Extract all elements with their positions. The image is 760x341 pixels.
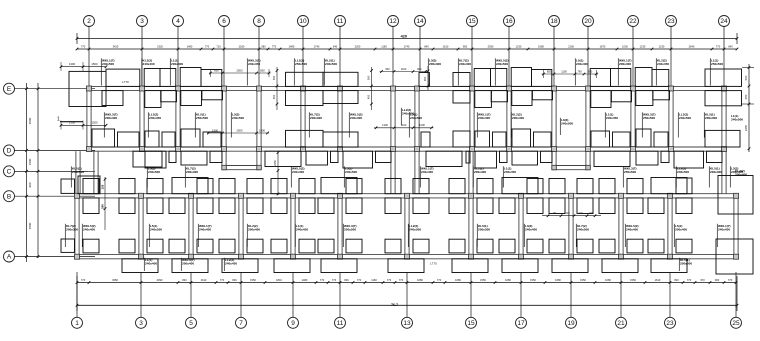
axis 12 extension line bbox=[392, 27, 394, 87]
axis 25 extension line (bottom) bbox=[735, 272, 737, 317]
axis 17 extension line (bottom) bbox=[520, 272, 522, 317]
slab panel above D bbox=[453, 131, 470, 147]
svg-text:1680: 1680 bbox=[555, 278, 561, 282]
slab panel below A bbox=[321, 259, 357, 273]
slab panel above D bbox=[493, 132, 507, 147]
corner panel above B bbox=[477, 179, 493, 194]
grid bubble axis C (left) bbox=[4, 166, 15, 177]
slab panel above E bbox=[635, 68, 652, 87]
column line axis 7 B-A bbox=[238, 198, 240, 255]
corner panel above A bbox=[271, 239, 287, 253]
svg-text:22: 22 bbox=[629, 18, 637, 25]
axis 23 extension line bbox=[670, 27, 672, 87]
slab panel below D (right) bbox=[169, 151, 176, 162]
svg-text:2450: 2450 bbox=[744, 124, 748, 131]
svg-text:240x500: 240x500 bbox=[409, 228, 421, 232]
svg-text:23: 23 bbox=[667, 18, 675, 25]
svg-text:500: 500 bbox=[272, 75, 276, 80]
column axis 8/E bbox=[257, 86, 262, 91]
svg-text:1550: 1550 bbox=[480, 278, 486, 282]
svg-text:900: 900 bbox=[715, 278, 720, 282]
svg-text:200x300: 200x300 bbox=[186, 170, 198, 174]
column axis 19/A bbox=[569, 254, 574, 259]
svg-text:2640: 2640 bbox=[689, 44, 695, 48]
slab panel below D (right) bbox=[331, 151, 339, 162]
small vertical dim right of axis 8 (E band) bbox=[276, 67, 278, 110]
column axis 11/E bbox=[338, 86, 343, 91]
slab panel below E bbox=[491, 91, 507, 102]
svg-text:15: 15 bbox=[467, 320, 475, 327]
column line axis 17 B-A bbox=[518, 198, 520, 255]
corner panel above A bbox=[169, 239, 185, 253]
svg-text:240x400: 240x400 bbox=[459, 62, 471, 66]
slab panel above E bbox=[611, 69, 631, 87]
corner panel above B bbox=[147, 179, 163, 194]
corner panel above A bbox=[627, 239, 643, 253]
svg-text:19: 19 bbox=[567, 320, 575, 327]
slab panel above E (span) bbox=[323, 72, 358, 86]
column axis 23/E bbox=[669, 86, 674, 91]
svg-text:1680: 1680 bbox=[455, 278, 461, 282]
slab panel below D (right) bbox=[376, 151, 392, 162]
axis 10 extension line bbox=[302, 27, 304, 87]
slab panel below D bbox=[512, 151, 538, 165]
column axis 21/A bbox=[619, 254, 624, 259]
svg-text:240x400: 240x400 bbox=[143, 62, 155, 66]
corner panel above B bbox=[119, 179, 135, 194]
svg-text:900: 900 bbox=[417, 67, 422, 71]
svg-text:1550: 1550 bbox=[530, 278, 536, 282]
axis 4 extension line bbox=[177, 27, 179, 87]
svg-text:L770: L770 bbox=[430, 262, 437, 266]
corner panel above A bbox=[599, 239, 615, 253]
grid bubble axis 6 (top) bbox=[219, 16, 230, 27]
corner panel above A bbox=[247, 239, 263, 253]
beam row D bbox=[88, 146, 727, 148]
corner panel above A bbox=[147, 239, 163, 253]
axis 23 extension line (bottom) bbox=[669, 272, 671, 317]
svg-text:770: 770 bbox=[220, 278, 225, 282]
svg-text:240x500: 240x500 bbox=[577, 228, 589, 232]
svg-text:250x500: 250x500 bbox=[643, 116, 655, 120]
column axis 4/E bbox=[176, 86, 181, 91]
corner panel above A bbox=[83, 239, 99, 253]
svg-text:770: 770 bbox=[716, 44, 721, 48]
column axis 16/E bbox=[507, 86, 512, 91]
svg-text:110: 110 bbox=[565, 211, 570, 215]
grid bubble axis 1 (bottom) bbox=[72, 317, 83, 328]
column axis 22/D bbox=[631, 147, 636, 152]
svg-text:2190: 2190 bbox=[568, 44, 574, 48]
slab panel above D bbox=[181, 129, 200, 147]
svg-text:250x500: 250x500 bbox=[295, 62, 307, 66]
grid bubble axis 15 (bottom) bbox=[466, 317, 477, 328]
svg-text:8: 8 bbox=[257, 18, 261, 25]
slab panel above B (crossing) bbox=[502, 178, 538, 194]
corner panel above A bbox=[449, 239, 465, 253]
column line axis 15 E-D bbox=[469, 91, 471, 152]
column axis 7/B bbox=[239, 193, 244, 198]
slab panel below D bbox=[594, 151, 630, 166]
column axis 23/A bbox=[668, 254, 673, 259]
column axis 3/E bbox=[140, 86, 145, 91]
slab panel below D (right) bbox=[466, 151, 470, 163]
column axis 24/D bbox=[722, 147, 727, 152]
corner panel above A bbox=[318, 239, 334, 253]
column axis 9/B bbox=[291, 193, 296, 198]
elevator bay dims bbox=[380, 71, 428, 73]
corner panel below B bbox=[219, 198, 235, 214]
svg-text:850: 850 bbox=[260, 68, 265, 72]
svg-text:24: 24 bbox=[720, 18, 728, 25]
svg-text:14: 14 bbox=[416, 18, 424, 25]
slab panel above E bbox=[590, 69, 610, 87]
svg-text:2500: 2500 bbox=[237, 128, 243, 132]
svg-text:840: 840 bbox=[674, 278, 679, 282]
corner panel above B bbox=[299, 179, 315, 194]
slab panel below A bbox=[502, 259, 538, 273]
svg-text:1810: 1810 bbox=[276, 278, 282, 282]
svg-text:2450: 2450 bbox=[273, 160, 277, 166]
small vertical dim left of axis 12 (E band) bbox=[371, 67, 373, 110]
axis 15 extension line bbox=[471, 27, 473, 87]
corner panel above B bbox=[271, 179, 287, 194]
svg-text:10: 10 bbox=[299, 18, 307, 25]
svg-text:C: C bbox=[7, 169, 12, 176]
column axis 22/E bbox=[631, 86, 636, 91]
corner panel above B bbox=[385, 179, 401, 194]
svg-text:240x500: 240x500 bbox=[677, 170, 689, 174]
svg-text:770: 770 bbox=[332, 278, 337, 282]
svg-text:240x400: 240x400 bbox=[292, 170, 304, 174]
svg-text:17: 17 bbox=[517, 320, 525, 327]
axis 13 extension line (bottom) bbox=[406, 272, 408, 317]
column axis 25/B bbox=[734, 193, 739, 198]
axis 16 extension line bbox=[508, 27, 510, 87]
slab panel below D bbox=[181, 151, 207, 165]
slab panel above E bbox=[453, 73, 470, 87]
svg-text:1200: 1200 bbox=[419, 123, 425, 127]
left outer slab above B bbox=[61, 179, 75, 193]
svg-text:240x450: 240x450 bbox=[225, 262, 237, 266]
column axis 17/A bbox=[519, 254, 524, 259]
svg-text:240x450: 240x450 bbox=[504, 170, 516, 174]
slab panel above B (crossing) bbox=[321, 178, 357, 194]
grid bubble axis 13 (bottom) bbox=[402, 317, 413, 328]
slab panel above D bbox=[636, 129, 651, 147]
svg-text:200x300: 200x300 bbox=[705, 116, 717, 120]
bottom chain dimension line bbox=[77, 282, 737, 284]
slab panel below A bbox=[122, 259, 158, 273]
slab panel below D bbox=[306, 151, 328, 165]
stair bay 3 dims bbox=[542, 73, 599, 75]
svg-text:1230: 1230 bbox=[516, 44, 522, 48]
svg-text:900: 900 bbox=[28, 182, 32, 187]
axis 3 extension line (bottom) bbox=[140, 272, 142, 317]
corner panel above A bbox=[648, 239, 664, 253]
axis 7 extension line (bottom) bbox=[240, 272, 242, 317]
mid-left dim 1300 1300 bbox=[61, 124, 106, 126]
corner panel below B bbox=[577, 198, 593, 214]
column line axis 15 D-B bbox=[468, 151, 470, 194]
svg-text:1: 1 bbox=[57, 117, 60, 123]
slab panel below A bbox=[274, 259, 310, 273]
svg-text:2500: 2500 bbox=[28, 117, 32, 124]
slab panel below E bbox=[591, 91, 611, 108]
grid bubble axis 12 (top) bbox=[388, 16, 399, 27]
corner panel below B bbox=[385, 198, 401, 214]
column axis 12/E bbox=[391, 86, 396, 91]
corner panel below B bbox=[477, 198, 493, 214]
svg-text:16: 16 bbox=[505, 18, 513, 25]
column axis 15/E bbox=[470, 86, 475, 91]
slab panel below A bbox=[172, 259, 208, 273]
column line axis 19 B-A bbox=[568, 198, 570, 255]
column line axis 6 E-D bbox=[221, 91, 223, 152]
column line axis 10 E-D bbox=[300, 91, 302, 152]
svg-text:240x400: 240x400 bbox=[199, 228, 211, 232]
svg-text:1100: 1100 bbox=[401, 67, 407, 71]
axis 11 extension line bbox=[339, 27, 341, 87]
axis 11 extension line (bottom) bbox=[339, 272, 341, 317]
svg-text:1740: 1740 bbox=[404, 44, 410, 48]
slab panel below E bbox=[512, 91, 532, 106]
svg-text:250x500: 250x500 bbox=[680, 262, 692, 266]
svg-text:450: 450 bbox=[272, 94, 276, 99]
slab panel below D bbox=[636, 151, 658, 165]
svg-text:1480: 1480 bbox=[289, 44, 295, 48]
axis 21 extension line (bottom) bbox=[620, 272, 622, 317]
column line axis 15 B-A bbox=[468, 198, 470, 255]
axis C line bbox=[15, 170, 89, 172]
svg-text:250x500: 250x500 bbox=[344, 228, 356, 232]
svg-text:2260: 2260 bbox=[355, 44, 361, 48]
column line axis 11 E-D bbox=[337, 91, 339, 152]
column line axis 13 B-A bbox=[404, 198, 406, 255]
slab panel below E bbox=[145, 91, 161, 108]
svg-text:450: 450 bbox=[744, 94, 748, 99]
slab panel below E bbox=[532, 91, 552, 100]
svg-text:200x400: 200x400 bbox=[474, 170, 486, 174]
column line axis 3 B-A bbox=[138, 198, 140, 255]
svg-text:250x500: 250x500 bbox=[624, 170, 636, 174]
corner panel below B bbox=[413, 198, 429, 214]
column line axis 18 E-D bbox=[551, 91, 553, 152]
svg-text:1550: 1550 bbox=[580, 278, 586, 282]
corner panel below B bbox=[527, 198, 543, 214]
slab panel below E bbox=[475, 91, 492, 108]
column line axis 8 E-D bbox=[256, 91, 258, 152]
svg-text:900: 900 bbox=[423, 76, 427, 81]
slab panel above D right end bbox=[705, 130, 740, 147]
slab panel above B (crossing) bbox=[172, 178, 208, 194]
svg-text:840: 840 bbox=[182, 278, 187, 282]
axis 3 extension line bbox=[141, 27, 143, 87]
slab panel above E bbox=[474, 69, 490, 87]
grid bubble axis 21 (bottom) bbox=[616, 317, 627, 328]
corner panel below B bbox=[83, 198, 99, 214]
corner panel below B bbox=[247, 198, 263, 214]
svg-text:1480: 1480 bbox=[302, 278, 308, 282]
svg-text:250x500: 250x500 bbox=[711, 62, 723, 66]
svg-text:12: 12 bbox=[389, 18, 397, 25]
top-left dim 1300 1500 bbox=[61, 66, 106, 68]
corner panel below B bbox=[549, 198, 565, 214]
corner panel above B bbox=[527, 179, 543, 194]
slab panel above D bbox=[512, 129, 531, 147]
slab panel above D bbox=[145, 131, 159, 147]
corner panel above A bbox=[346, 239, 362, 253]
slab panel below D bbox=[475, 151, 497, 168]
slab panel below E (span) bbox=[286, 91, 324, 106]
column axis 17/B bbox=[519, 193, 524, 198]
grid bubble axis 3 (bottom) bbox=[136, 317, 147, 328]
slab panel below D bbox=[343, 151, 373, 168]
svg-text:25: 25 bbox=[732, 320, 740, 327]
svg-text:2: 2 bbox=[87, 18, 91, 25]
column axis 15/B bbox=[469, 193, 474, 198]
stair bay 3 landing beam bbox=[552, 165, 590, 167]
axis E extension line (left) bbox=[15, 88, 96, 90]
svg-text:3420: 3420 bbox=[113, 44, 119, 48]
slab panel below D bbox=[145, 151, 166, 168]
small vertical dim in bay 1-3 below B bbox=[104, 177, 106, 230]
left vertical dimension chain bbox=[26, 83, 28, 262]
column line axis 9 B-A bbox=[290, 198, 292, 255]
column line axis 23 B-A bbox=[667, 198, 669, 255]
column axis 1/B bbox=[75, 193, 80, 198]
svg-text:13: 13 bbox=[403, 320, 411, 327]
slab panel above D bbox=[203, 132, 221, 147]
column axis 4/D bbox=[176, 147, 181, 152]
svg-text:11: 11 bbox=[337, 320, 344, 327]
slab panel above D (span) bbox=[323, 132, 358, 147]
grid bubble axis 15 (top) bbox=[467, 16, 478, 27]
grid bubble axis 8 (top) bbox=[254, 16, 265, 27]
column axis 3/B bbox=[139, 193, 144, 198]
corner panel above A bbox=[299, 239, 315, 253]
slab panel below E bbox=[161, 91, 177, 102]
corner panel above A bbox=[499, 239, 515, 253]
svg-text:21: 21 bbox=[617, 320, 625, 327]
slab panel above E bbox=[652, 70, 669, 87]
svg-text:240x500: 240x500 bbox=[102, 62, 114, 66]
beam row A bbox=[75, 254, 740, 256]
corner panel below B bbox=[271, 198, 287, 214]
slab panel below D (right) bbox=[210, 151, 222, 162]
column line axis 5 B-A bbox=[188, 198, 190, 255]
svg-text:15: 15 bbox=[468, 18, 476, 25]
svg-text:1160: 1160 bbox=[381, 44, 387, 48]
column line axis 11 B-A bbox=[337, 198, 339, 255]
svg-text:1870: 1870 bbox=[600, 44, 606, 48]
column axis 3/A bbox=[139, 254, 144, 259]
slab panel below A bbox=[388, 259, 424, 273]
corner panel below B bbox=[676, 198, 692, 214]
grid bubble axis 16 (top) bbox=[504, 16, 515, 27]
column axis 21/B bbox=[619, 193, 624, 198]
grid bubble axis E (left) bbox=[4, 83, 15, 94]
svg-text:240x500: 240x500 bbox=[148, 170, 160, 174]
column axis 6/D bbox=[222, 147, 227, 152]
svg-text:240x450: 240x450 bbox=[149, 116, 161, 120]
grid bubble axis A (left) bbox=[4, 251, 15, 262]
column line axis 4 E-D bbox=[175, 91, 177, 152]
left balcony slab bbox=[69, 71, 106, 106]
corner panel below B bbox=[599, 198, 615, 214]
beam row E bbox=[87, 85, 727, 87]
slab panel below A bbox=[602, 259, 638, 273]
left slab above B bbox=[78, 176, 100, 194]
top overall dimension line bbox=[77, 38, 737, 40]
svg-text:1680: 1680 bbox=[505, 278, 511, 282]
grid bubble axis 18 (top) bbox=[549, 16, 560, 27]
slab panel below E bbox=[611, 91, 631, 102]
svg-text:240x450: 240x450 bbox=[657, 62, 669, 66]
svg-text:500: 500 bbox=[367, 75, 371, 80]
svg-text:200x400: 200x400 bbox=[619, 62, 631, 66]
svg-text:640: 640 bbox=[333, 44, 338, 48]
column axis 15/A bbox=[469, 254, 474, 259]
svg-text:240x450: 240x450 bbox=[248, 62, 260, 66]
svg-text:1480: 1480 bbox=[187, 44, 193, 48]
svg-text:710: 710 bbox=[216, 44, 221, 48]
axis 24 extension line bbox=[723, 27, 725, 87]
axis D extension line (left) bbox=[15, 149, 96, 151]
column axis 16/D bbox=[507, 147, 512, 152]
column line axis 2 E-D bbox=[86, 91, 88, 152]
svg-text:1300: 1300 bbox=[91, 121, 98, 125]
grid bubble axis 20 (top) bbox=[583, 16, 594, 27]
beam row B bbox=[75, 193, 740, 195]
svg-text:2320: 2320 bbox=[157, 44, 163, 48]
column axis 14/D bbox=[415, 147, 420, 152]
right vertical dimension chain bbox=[748, 64, 750, 152]
column line axis 21 B-A bbox=[618, 198, 620, 255]
svg-text:200x400: 200x400 bbox=[171, 62, 183, 66]
axis 15 extension line (bottom) bbox=[470, 272, 472, 317]
slab panel above B (crossing) bbox=[651, 178, 687, 194]
slab panel above D bbox=[162, 132, 175, 147]
grid bubble axis 2 (top) bbox=[84, 16, 95, 27]
svg-text:200x400: 200x400 bbox=[182, 262, 194, 266]
column line axis 25 B-A bbox=[733, 198, 735, 255]
right terrace slab lower bbox=[716, 239, 753, 274]
svg-text:5: 5 bbox=[189, 320, 193, 327]
svg-text:840: 840 bbox=[728, 44, 733, 48]
svg-text:23: 23 bbox=[666, 320, 674, 327]
left boundary wall D-B bbox=[75, 151, 77, 194]
column axis 3/D bbox=[140, 147, 145, 152]
slab panel above E bbox=[491, 69, 507, 87]
svg-text:240x400: 240x400 bbox=[421, 170, 433, 174]
svg-text:2390: 2390 bbox=[488, 44, 494, 48]
corner panel below B bbox=[147, 198, 163, 214]
svg-text:200x400: 200x400 bbox=[675, 228, 687, 232]
svg-text:200x300: 200x300 bbox=[310, 116, 322, 120]
svg-text:840: 840 bbox=[424, 44, 429, 48]
left outer slab above A bbox=[61, 239, 75, 252]
svg-text:770: 770 bbox=[728, 278, 733, 282]
axis 14 extension line bbox=[419, 27, 421, 72]
column axis 2/D bbox=[87, 147, 92, 152]
grid bubble axis 5 (bottom) bbox=[186, 317, 197, 328]
slab panel above E bbox=[106, 69, 140, 86]
svg-text:9: 9 bbox=[291, 320, 295, 327]
svg-text:420: 420 bbox=[401, 35, 407, 39]
svg-text:4: 4 bbox=[176, 18, 180, 25]
svg-text:240x500: 240x500 bbox=[731, 118, 743, 122]
